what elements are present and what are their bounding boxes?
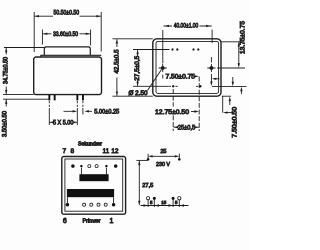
pin centerline extension left bottom	[172, 89, 174, 131]
dim 25 arrows	[174, 126, 199, 128]
svg-text:7: 7	[62, 148, 66, 155]
svg-text:Primær: Primær	[83, 219, 101, 225]
dim 13.75 line and arrows	[238, 42, 240, 64]
dim 7.50 right arrows	[232, 77, 234, 82]
svg-text:50.50±0.50: 50.50±0.50	[54, 10, 80, 16]
layout pin stems	[148, 200, 179, 207]
svg-text:42.5±0.5: 42.5±0.5	[114, 49, 120, 74]
mounting hole left	[159, 64, 167, 72]
dim 34.75 line and arrows	[5, 48, 7, 94]
dim 7.50 right L extension	[223, 96, 233, 112]
secondary winding ticks	[81, 168, 106, 175]
svg-text:15: 15	[161, 200, 167, 205]
dim 12.75 arrow	[191, 111, 195, 113]
bottom view top open holes	[88, 165, 91, 168]
layout dim 25 arrows	[148, 155, 179, 157]
primary winding ticks	[67, 197, 113, 203]
dim 50.50 line	[34, 15, 101, 17]
dim 5.00 pitch arrows	[64, 110, 93, 112]
left extension line body bottom	[3, 94, 34, 96]
layout dim 27.5 line	[138, 161, 140, 205]
bottom view bottom open holes	[83, 203, 108, 206]
svg-text:230 V: 230 V	[156, 162, 170, 168]
svg-text:12.75±0.50: 12.75±0.50	[155, 110, 190, 116]
mounting hole left centerline	[162, 30, 164, 63]
dim 13.75 extension top	[221, 41, 244, 43]
layout top pin dots	[147, 158, 181, 161]
dim 7.50 opposing arrow	[216, 78, 220, 80]
pin 2 front	[54, 95, 56, 101]
dim 25 line	[174, 126, 199, 128]
svg-text:5: 5	[175, 200, 178, 205]
svg-text:11: 11	[103, 148, 110, 155]
dim 7.50 hole offset arrow	[195, 75, 196, 77]
dim 27.5 extension line top	[133, 49, 170, 51]
svg-text:25±0,5: 25±0,5	[178, 125, 196, 131]
dim 42.5 line and arrows	[116, 39, 118, 96]
bottom view label primaer	[63, 218, 114, 225]
mounting hole right	[207, 64, 215, 72]
svg-text:34.75±0.50: 34.75±0.50	[4, 56, 10, 84]
dashed extension pin 1	[48, 101, 50, 108]
left extension line lid top	[4, 47, 44, 49]
svg-text:13.75±0.75: 13.75±0.75	[241, 20, 247, 54]
secondary winding bar	[79, 174, 108, 181]
bottom view top pin row	[71, 164, 117, 167]
svg-text:7.50±0.75: 7.50±0.75	[166, 75, 196, 81]
svg-text:5.00±0.25: 5.00±0.25	[94, 109, 120, 115]
pin 5 front	[76, 95, 78, 101]
svg-text:12: 12	[111, 148, 119, 155]
hole diameter leader line	[148, 70, 162, 91]
svg-text:3.50±0.50: 3.50±0.50	[2, 110, 8, 137]
svg-text:25: 25	[160, 149, 166, 155]
dim 40.00 extension ticks	[211, 30, 213, 43]
pin row extension right	[212, 85, 247, 87]
svg-text:7.50±0.50: 7.50±0.50	[233, 106, 239, 138]
layout dim 27.5 arrows	[138, 161, 140, 206]
pin 1 front	[48, 95, 50, 101]
dim 40.00 line	[164, 25, 212, 27]
svg-text:40.00±1.00: 40.00±1.00	[174, 24, 199, 30]
svg-text:27,5±0,5: 27,5±0,5	[135, 55, 141, 81]
layout baseline	[141, 205, 189, 207]
svg-text:5 X 5.00: 5 X 5.00	[53, 120, 74, 126]
layout baseline arrows	[143, 204, 184, 206]
dim 5 X 5.00 arrows	[49, 121, 77, 123]
front view lid	[44, 47, 90, 55]
dim 33.60 line	[43, 33, 90, 35]
dim 12.75 text	[155, 107, 191, 116]
bottom view pin numbers top	[62, 148, 118, 155]
dim 5 X 5.00 line	[49, 121, 77, 123]
top view inner outline	[156, 41, 219, 93]
front view body	[34, 57, 102, 95]
bottom view inner outline	[65, 159, 123, 211]
svg-text:5: 5	[150, 200, 153, 205]
pin centerline extension right bottom	[198, 77, 200, 132]
layout dim 25 end ticks	[148, 154, 179, 158]
dim 27.5 line and arrows	[137, 50, 139, 86]
bottom view outer outline	[62, 157, 126, 215]
svg-text:Ø 2.50: Ø 2.50	[129, 91, 149, 97]
dim 33.60 arrows	[43, 33, 90, 35]
primary winding bar	[67, 189, 114, 197]
top view pin dots upper row	[171, 48, 199, 50]
dim 50.50 extension ticks	[34, 12, 101, 52]
svg-text:6: 6	[63, 218, 67, 225]
svg-text:8: 8	[70, 148, 74, 155]
svg-text:33.60±0.50: 33.60±0.50	[53, 32, 79, 38]
pin 6 front	[82, 95, 84, 101]
layout dim 27.5 top tick	[136, 159, 148, 161]
front view brim step	[41, 55, 102, 57]
svg-text:Sekundær: Sekundær	[78, 142, 102, 148]
hole centerline extension right	[217, 67, 245, 69]
dashed extension pin 6	[82, 101, 84, 108]
layout pin tops	[147, 197, 181, 200]
dashed extension pin 5	[76, 101, 78, 108]
mounting hole right centerline with arrow	[210, 57, 212, 82]
dim 42.5 extension lines	[113, 39, 153, 96]
svg-text:1: 1	[110, 218, 114, 225]
dim 50.50 arrows	[35, 15, 101, 17]
bottom view bottom pin row	[66, 203, 116, 206]
box bottom extension right	[222, 95, 231, 97]
dim 7.50 right lower arrow	[229, 101, 231, 106]
dim 40.00 arrows	[163, 25, 212, 27]
dim 33.60 extension ticks	[42, 30, 90, 46]
top view outer outline	[153, 39, 221, 96]
pin end reference line	[3, 98, 49, 100]
top view pin dots lower row	[172, 85, 202, 87]
svg-text:27,5: 27,5	[142, 183, 153, 189]
dim 3.50 arrow	[5, 100, 7, 107]
dim 27.5 extension line bottom	[133, 85, 169, 87]
layout dim 25 line	[152, 155, 176, 157]
lower dots centre dashes	[169, 85, 199, 87]
